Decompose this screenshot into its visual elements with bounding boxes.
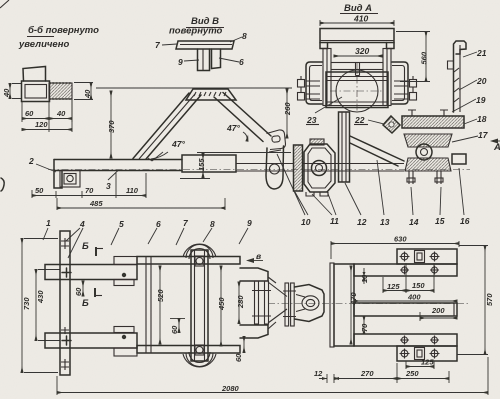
dimension 410 [320,14,394,27]
paper corner mark [0,0,9,8]
dimension 60 and 40 (bottom widths) [22,100,72,133]
detail arcs at hinge top [183,244,216,259]
dimension 260 [283,89,292,138]
side view: clevis top tab [310,139,324,145]
plan right: upper arm [354,264,457,276]
part label 23 [306,97,342,125]
dimension 200 [420,306,457,321]
part label 17 [452,130,489,142]
view A: right clamp bolts [394,76,417,100]
dimension 10 [360,268,369,284]
side view: clevis bottom tabs [306,192,328,196]
dimension 320 [334,46,382,56]
side view: drawbar rails to coupling [236,164,404,172]
dimension 60 lower [170,319,185,335]
plan: bolts on flat bar [61,238,71,370]
plan right: drawbar tongue [354,303,457,316]
plan: frame left verticals [146,257,151,354]
view A: left clamp bolts [298,76,321,100]
side view: left vertical pin strip [294,145,303,191]
leader lines for 10-16 [277,154,464,215]
dimension 155 [180,153,291,179]
angle 47 deg right [226,123,247,141]
side view: coupling top plate [402,110,464,128]
plan: flange disc pair [283,283,296,326]
part number row 1-16 [46,216,470,229]
section mark B lower [82,288,102,309]
dimension 125 lower [406,358,434,370]
side view: right eye plate [452,154,466,164]
plan: lower side beam [45,333,137,348]
plan centerline [268,303,470,305]
part label 3 [106,171,118,192]
part label 2 [28,156,56,172]
drawbar front hook [54,160,80,189]
dimension 730 [22,239,58,373]
dimension 280 [236,282,245,324]
right leg end plate with slot [267,130,286,150]
dimension 400 [354,293,457,302]
dimension 270 [334,363,397,383]
plan: front flat bar [60,231,70,375]
view B: vertical stem [198,49,210,71]
stray ink mark left edge [1,178,4,191]
view title "б-б повернуто увеличено" [18,25,99,50]
view B: right stem plate [212,49,221,69]
view A: left post [323,49,331,106]
dimensions 125 and 150 [383,263,434,293]
hitch bracket below leg [266,146,284,189]
dimension 370 [107,91,116,158]
drawbar beam [54,160,182,171]
dimension 560 [396,32,430,82]
dimension 12 [314,369,342,383]
detail arcs at hinge bottom [183,352,216,367]
part label 18 [464,114,487,124]
view A: right post [383,49,391,106]
dimension 60 upper [74,281,83,296]
part label 9 [178,57,199,67]
dimension 250 [397,369,449,383]
view direction arrow B [246,251,263,263]
drawbar centerline [48,169,470,171]
dimension 2080 [57,357,488,395]
plan: hinge flange plates [252,281,271,324]
plan right: lower arm [354,334,457,346]
plan: frame top rail [137,257,240,265]
plan right: upper arm bolts [400,266,439,275]
angle 47 deg left [148,139,185,161]
plan: upper side beam [45,265,137,280]
plan right: lower arm bolts [400,336,439,345]
part label 19 [452,95,486,112]
view title "Вид А" [340,3,378,14]
view A: upper cross bar [331,63,383,76]
dimension 470 [349,266,358,344]
dimension 630 [331,235,459,260]
section mark B upper [82,241,103,256]
dimension 485 [57,198,225,210]
dimension 570 [457,246,494,355]
view B: top plate of hitch tongue [176,41,234,49]
plan: fork lower arm [240,325,268,338]
view A: top channel beam [320,29,394,49]
side view: diagonal strut [350,136,404,166]
side view: coupling pin [416,144,432,160]
plan right: lower clamp bar [397,346,457,361]
dimension 40 (right height) [74,83,93,100]
triangle apex plate [186,89,236,100]
view A: drum body [326,63,388,112]
leader lines for 1,4,5,6,7,8,9 [43,228,248,258]
dimension 450 [217,266,226,346]
side view: coupling upper jaw [404,128,464,147]
part label 6 [219,57,244,67]
part label 8 [230,31,247,42]
part label 7 [155,40,177,50]
dimension 120 (overall width) [22,100,72,133]
drawbar sleeve section [182,155,236,172]
dimensions 50 70 110 [32,173,146,198]
dimension 430 [36,270,60,341]
view direction arrow A [490,139,500,154]
part label 21 [463,48,487,58]
side view: rear upright strip with hook [448,41,467,112]
part label 22 [354,115,384,125]
side view: clevis octagon plate [304,144,335,192]
plan: lower beam end bracket [114,327,137,357]
plan: frame bottom rail [137,346,240,354]
triangle right leg [214,93,271,142]
dimension 520 [156,266,165,344]
dimension 70 [360,316,369,334]
triangle left leg [133,93,201,159]
plan right: upper clamp bar [397,249,457,264]
view A: left clamp hook [306,62,322,104]
reference line above apex [96,87,292,89]
side view: coupling lower jaw [405,158,451,171]
dimension 60 right [234,337,244,363]
plan right: mounting strip [330,263,334,347]
plan: fork converging links [268,277,287,329]
part: diamond lock plate [383,116,400,133]
section b-b: channel section outer [22,81,50,102]
section b-b: top angle plate [23,67,46,82]
plan right: axle housing box [334,264,354,346]
side view: coupling lower bolts [407,171,443,184]
plan: universal joint yoke [295,285,325,322]
plan: fork upper arm [240,268,268,281]
dimension 40 (left height) [2,84,21,99]
view title "Вид В повернуто" [169,16,224,37]
part label 20 [459,76,487,90]
section b-b: serrated block [49,83,72,99]
plan: hinge pin bar [191,250,208,361]
view A: right clamp hook [392,62,408,104]
plan: upper beam end bracket [114,257,137,286]
side view: tall hanger strip below view A [339,112,350,182]
